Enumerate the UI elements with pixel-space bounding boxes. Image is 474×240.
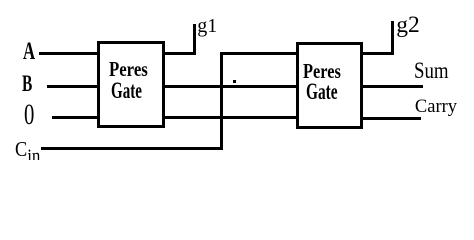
wire Carry output (360, 117, 421, 120)
label Sum (414, 59, 449, 82)
label g1 (197, 16, 217, 36)
wire g1 vertical stub (193, 24, 196, 54)
wire U2 output1 to g2 stub (360, 52, 394, 55)
wire Cin horizontal (41, 147, 223, 150)
label Cin (15, 139, 40, 167)
wire g2 vertical stub (391, 21, 394, 55)
Peres gate U1 label line2 (111, 79, 142, 102)
label g2 (396, 14, 420, 38)
wire U1 output1 to g1 stub (162, 52, 196, 55)
label A (23, 39, 35, 64)
Peres gate U2 box (296, 42, 363, 130)
wire Sum output (360, 85, 423, 88)
wire Cin riser vertical (220, 52, 223, 150)
Peres gate U1 box (97, 41, 165, 128)
wire B input (47, 85, 100, 88)
Peres gate U1 label line1 (109, 59, 148, 81)
wire A input (39, 52, 100, 55)
Peres gate U2 label line2 (306, 81, 338, 105)
label 0 (24, 100, 34, 130)
wire 0 input (52, 116, 100, 119)
Peres gate U2 label line1 (303, 61, 341, 83)
wire U1 output2 to U2 (A xor B) (162, 85, 298, 88)
junction dot (233, 80, 236, 83)
label B (22, 72, 32, 95)
wire U1 output3 to U2 (A.B) (162, 116, 298, 119)
wire riser to gate2 top input (220, 52, 298, 55)
label Carry (415, 98, 457, 117)
